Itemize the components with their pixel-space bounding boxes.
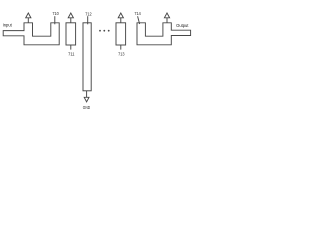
svg-text:712: 712 xyxy=(85,12,92,17)
leader line for label 713 xyxy=(120,45,122,50)
svg-text:Output: Output xyxy=(176,23,189,28)
ellipsis dots xyxy=(99,30,110,32)
input lead and series conductor 710 (U-shaped trace) xyxy=(3,23,59,45)
arrow above 710 left arm xyxy=(26,13,31,23)
shunt resonator 713 (rectangle) xyxy=(116,23,126,45)
leader line for label 712 xyxy=(87,16,89,24)
svg-text:Input: Input xyxy=(3,22,13,27)
svg-text:GND: GND xyxy=(83,105,91,110)
arrow above 714 right arm xyxy=(164,13,169,23)
down arrow from 712 to GND xyxy=(84,91,89,102)
leader line for label 711 xyxy=(70,45,72,50)
series conductor 714 (U-shaped trace) and output lead xyxy=(137,23,191,45)
svg-text:713: 713 xyxy=(118,52,125,57)
ground bar 712 (tall rectangle to GND) xyxy=(83,23,91,91)
shunt resonator 711 (rectangle) xyxy=(66,23,76,45)
svg-text:711: 711 xyxy=(68,52,75,57)
arrow above 713 xyxy=(118,13,123,23)
svg-text:710: 710 xyxy=(52,11,59,16)
leader line for label 710 xyxy=(54,16,56,24)
svg-text:714: 714 xyxy=(134,11,141,16)
arrow above 711 xyxy=(68,13,73,23)
leader line for label 714 xyxy=(138,16,140,24)
